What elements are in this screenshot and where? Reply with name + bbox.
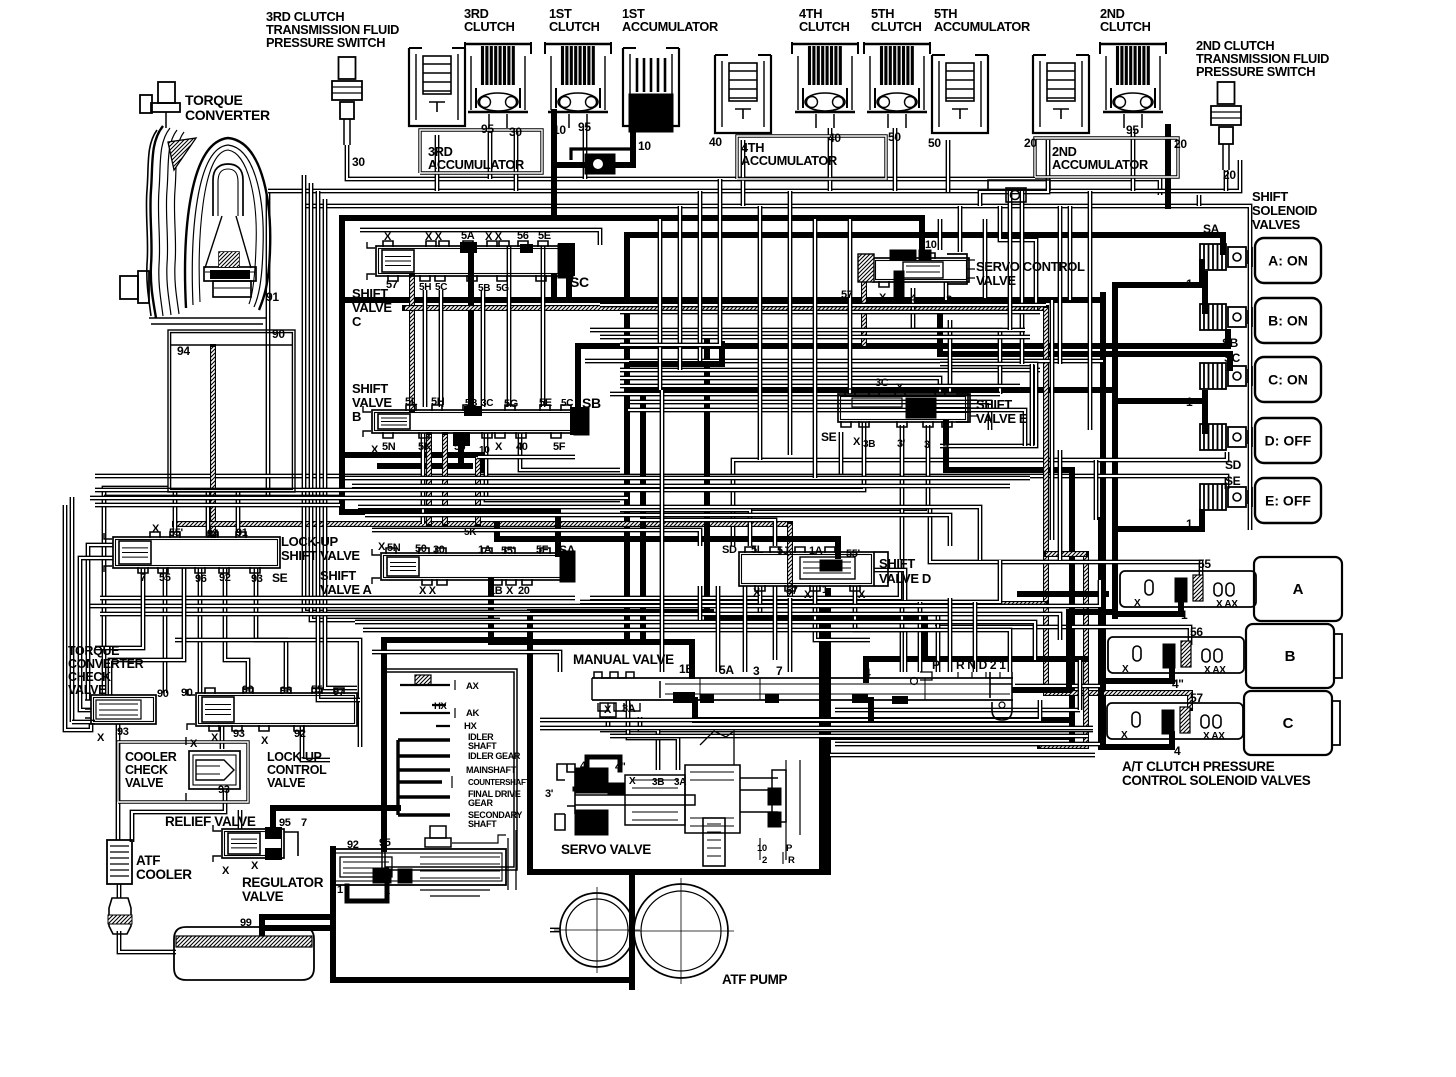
4th accumulator [715, 55, 771, 133]
lock-up control valve [187, 688, 357, 731]
wire thick under sv [868, 700, 874, 720]
wire lowband6 [372, 652, 560, 672]
svg-text:X: X [1134, 598, 1141, 609]
pressure control solenoid A box [1254, 557, 1342, 621]
svg-text:1B: 1B [489, 585, 503, 597]
wire midband8 [628, 410, 1025, 446]
svg-text:5E: 5E [538, 230, 551, 242]
svg-text:3B: 3B [863, 439, 875, 450]
wire pcsC 4 [1101, 734, 1172, 747]
cooler check valve [186, 737, 240, 801]
svg-text:CLUTCH: CLUTCH [871, 19, 922, 34]
solenoid valve B box [1255, 298, 1321, 343]
svg-text:X: X [896, 382, 904, 394]
wire pcsA 1 [1115, 601, 1181, 614]
wire right vertical 1101 [1098, 520, 1104, 747]
wire strainer link [117, 884, 122, 898]
svg-text:10: 10 [638, 139, 651, 153]
wire 5th clutch drop [893, 128, 898, 191]
1st accumulator [623, 48, 679, 132]
svg-text:TORQUE: TORQUE [68, 644, 119, 658]
lock-up shift valve [104, 532, 280, 573]
wire lockup outs 4 [256, 568, 286, 693]
svg-text:VALVE: VALVE [976, 273, 1016, 288]
svg-text:57: 57 [1190, 691, 1203, 705]
svg-text:1: 1 [822, 584, 828, 596]
svg-text:50: 50 [888, 130, 901, 144]
svg-text:P: P [786, 843, 793, 854]
wire SA from A [342, 455, 558, 554]
wire left v5 [70, 497, 75, 722]
solenoid valve D box [1255, 418, 1321, 463]
svg-text:3C: 3C [875, 377, 889, 389]
wire tccv down [116, 724, 121, 840]
wire relief feed [238, 810, 243, 829]
wire mid h2 [620, 368, 1040, 373]
torque converter [120, 82, 270, 324]
wire 3rd accum drop [435, 135, 440, 191]
svg-text:B: B [1285, 648, 1296, 665]
wire rb 594 [1020, 591, 1106, 597]
wire mvv3 [743, 586, 748, 672]
svg-text:1: 1 [1186, 395, 1193, 409]
pressure control solenoid A [1120, 571, 1256, 607]
svg-text:3C: 3C [481, 398, 493, 409]
wire mv right hook [1015, 684, 1100, 689]
svg-text:20: 20 [1174, 137, 1187, 151]
svg-text:SE: SE [821, 430, 837, 444]
svg-text:X AX: X AX [1216, 599, 1238, 610]
svg-text:5F: 5F [553, 441, 566, 453]
svg-text:X: X [1122, 664, 1129, 675]
svg-text:1: 1 [384, 885, 390, 897]
svg-text:X: X [506, 585, 514, 597]
wire midband7 [630, 402, 990, 430]
svg-text:R: R [788, 855, 795, 866]
wire bus SC [940, 300, 1230, 368]
svg-text:93: 93 [233, 728, 245, 740]
hatch bus 524 [175, 521, 790, 527]
wire rb v3 [1078, 660, 1083, 710]
svg-text:55: 55 [311, 684, 323, 696]
wire reg 95 vert [381, 640, 387, 849]
2nd clutch pressure switch [1211, 82, 1241, 170]
svg-text:1: 1 [1186, 517, 1193, 531]
svg-text:SHIFT: SHIFT [1252, 189, 1288, 204]
wire sol cyl link AB [1202, 274, 1208, 311]
svg-text:93: 93 [117, 726, 129, 738]
svg-text:1: 1 [1186, 277, 1193, 291]
svg-text:X: X [222, 865, 230, 877]
wire nest v3 [318, 191, 360, 700]
svg-text:PRESSURE SWITCH: PRESSURE SWITCH [1196, 64, 1315, 79]
svg-text:VALVE D: VALVE D [879, 571, 931, 586]
svg-text:5B: 5B [478, 283, 490, 294]
atf strainer [108, 898, 132, 934]
wire SCV 3 down [944, 282, 949, 300]
svg-text:SE: SE [272, 571, 288, 585]
wire x950 pair [948, 320, 953, 394]
box cooler check valve [118, 742, 248, 802]
wire midv3 [698, 191, 703, 361]
wire rv1 [1030, 364, 1035, 446]
servo valve [555, 731, 800, 866]
wire sv 3B [640, 717, 658, 770]
wire lowband5 [363, 630, 1010, 672]
wire tank to lockup 55 [173, 492, 178, 537]
svg-text:1: 1 [822, 664, 829, 678]
wire valveE 3 line [746, 425, 928, 512]
svg-text:AX: AX [466, 681, 480, 692]
svg-text:40: 40 [709, 135, 722, 149]
svg-text:ACCUMULATOR: ACCUMULATOR [1052, 157, 1148, 172]
svg-text:SC: SC [570, 274, 589, 290]
relief valve blobs [265, 827, 282, 839]
svg-text:CONVERTER: CONVERTER [68, 657, 144, 671]
svg-text:5J: 5J [454, 441, 466, 453]
wire bus 617 [707, 342, 925, 659]
wire mvv1 [698, 586, 703, 620]
check valve symbol 2 [988, 180, 1050, 202]
svg-text:PRESSURE SWITCH: PRESSURE SWITCH [266, 35, 385, 50]
wire reg thick left [262, 849, 333, 936]
manual valve black 2 [700, 694, 714, 703]
wire lu left 1 [88, 545, 113, 700]
svg-text:5E: 5E [539, 397, 552, 409]
wire reg bottom [333, 872, 632, 980]
manual valve black 1 [673, 692, 695, 703]
wire valveE feed2 [900, 425, 905, 672]
svg-text:X: X [384, 231, 392, 243]
wire sol 1 feed CD [1115, 398, 1202, 404]
wire strainer to pan [119, 931, 176, 952]
svg-text:CHECK: CHECK [68, 670, 111, 684]
check valve symbol 1 [571, 149, 633, 174]
svg-text:55': 55' [501, 545, 516, 557]
svg-text:10: 10 [553, 123, 566, 137]
wire bus loop C [342, 218, 922, 455]
wire 4th clutch drop [828, 128, 833, 191]
wire manual 4 feed [866, 659, 1086, 680]
wire midv10 [1008, 191, 1013, 330]
wire bc v4 [507, 246, 512, 407]
1st clutch [545, 42, 611, 128]
wire atf pump thick [629, 980, 635, 987]
3rd clutch pressure switch [332, 57, 362, 145]
pressure control solenoid C [1107, 703, 1243, 739]
shift valve A [372, 548, 575, 585]
wire lockup outs 1 [163, 568, 168, 693]
svg-text:VALVE: VALVE [125, 776, 163, 790]
wire lowband2 [90, 580, 1100, 606]
wire bus 300 [344, 297, 1103, 303]
svg-text:AK: AK [466, 708, 480, 719]
hatch mark box [415, 675, 431, 685]
svg-text:COOLER: COOLER [136, 867, 192, 882]
wire left h6 [72, 720, 95, 725]
wire 2nd clutch thick [1165, 127, 1171, 206]
wire tank to lockup 94 [206, 492, 211, 537]
svg-text:95: 95 [279, 817, 291, 829]
wire left loop [65, 505, 91, 730]
wire hatch457 ext [478, 455, 575, 460]
svg-text:5C: 5C [561, 398, 573, 409]
wire servo box [530, 610, 822, 872]
hatch left vertical [210, 347, 216, 535]
svg-text:LOCK-UP: LOCK-UP [267, 750, 322, 764]
svg-text:5C: 5C [435, 282, 447, 293]
wire mb3 [610, 734, 1088, 739]
svg-text:P: P [932, 658, 940, 672]
wire nest v4 [325, 199, 357, 688]
svg-text:50: 50 [928, 136, 941, 150]
svg-text:CHECK: CHECK [125, 763, 168, 777]
pressure control solenoid C box [1244, 691, 1332, 755]
wire rtop L1 [1000, 206, 1036, 310]
wire midv5 [758, 206, 763, 460]
svg-text:D: OFF: D: OFF [1265, 433, 1312, 449]
svg-text:3: 3 [946, 294, 952, 306]
wire psw2 link [1197, 195, 1202, 206]
wire relief thick [273, 808, 398, 827]
wire 1st accum thick [556, 134, 633, 165]
svg-text:X: X [604, 704, 612, 716]
svg-text:10: 10 [925, 239, 937, 251]
svg-text:92: 92 [294, 728, 306, 740]
svg-text:56: 56 [1190, 625, 1203, 639]
tccv details [85, 700, 141, 719]
svg-text:20: 20 [1223, 168, 1236, 182]
hatch bus 315 [405, 305, 1046, 311]
wire valveA under [590, 560, 900, 598]
wire 5B link [468, 250, 474, 410]
svg-text:SHAFT: SHAFT [468, 741, 497, 751]
wire lu left 2 [80, 558, 113, 710]
wire midband2 [620, 310, 1040, 315]
wire sol cyl link CD [1202, 393, 1208, 431]
svg-text:C: ON: C: ON [1268, 372, 1308, 388]
wire 4th accum drop [741, 140, 746, 206]
svg-text:94: 94 [207, 528, 220, 540]
svg-text:95: 95 [578, 120, 591, 134]
svg-text:X: X [251, 860, 259, 872]
svg-text:GEAR: GEAR [468, 798, 493, 808]
3rd accumulator [409, 48, 465, 126]
svg-text:10: 10 [757, 843, 767, 854]
wire lowband1 [100, 596, 575, 601]
svg-text:COOLER: COOLER [125, 750, 177, 764]
svg-text:4'': 4'' [615, 761, 626, 773]
svg-text:CONVERTER: CONVERTER [185, 107, 270, 123]
wire bc v3 [481, 290, 486, 407]
shift valve E details [852, 394, 977, 422]
svg-text:IDLER GEAR: IDLER GEAR [468, 751, 521, 761]
wire valveE 4 line [946, 422, 1072, 746]
wire tank bottom left [104, 488, 168, 695]
svg-text:40: 40 [516, 441, 528, 453]
wire mvv2 [716, 586, 721, 672]
wire valveE black right [935, 407, 968, 413]
wire pcs56 line [935, 627, 1190, 645]
servo control valve details [858, 250, 975, 284]
svg-text:C: C [352, 314, 362, 329]
wire top bus 3 [302, 206, 1250, 530]
svg-text:5H: 5H [431, 396, 445, 408]
wire SCV 57 hatch [861, 280, 867, 346]
wire thick pan99 [262, 925, 333, 931]
svg-text:X: X [378, 541, 386, 553]
wire tank level line [170, 344, 293, 346]
svg-text:SA: SA [1203, 222, 1220, 236]
wire SCV 4 thick [894, 276, 905, 302]
wire bus loop C bottom [342, 455, 484, 470]
wire bus SA [627, 235, 1223, 642]
wire midv7 [813, 219, 818, 478]
svg-text:MAINSHAFT: MAINSHAFT [466, 765, 517, 775]
wire top bus 2b [268, 160, 1240, 191]
wire band1 [95, 488, 620, 493]
svg-text:X: X [629, 776, 636, 787]
wire midv9 [958, 206, 963, 252]
wire thick sv out [575, 787, 608, 792]
wire bus 720 [695, 700, 1072, 720]
svg-text:55': 55' [846, 548, 861, 560]
svg-text:55': 55' [169, 527, 184, 539]
svg-text:3A: 3A [622, 703, 636, 715]
wire pcsB 4pp [1104, 668, 1172, 681]
svg-text:SOLENOID: SOLENOID [1252, 203, 1317, 218]
svg-text:X X: X X [425, 231, 443, 243]
svg-text:ATF PUMP: ATF PUMP [722, 972, 788, 987]
svg-text:X AX: X AX [1204, 665, 1226, 676]
wire bus 737 [827, 705, 1071, 737]
shaft list box [382, 669, 517, 870]
svg-text:X: X [1121, 730, 1128, 741]
wire b down 3 [520, 433, 620, 470]
solenoid valve E [1200, 484, 1252, 510]
svg-text:ACCUMULATOR: ACCUMULATOR [741, 153, 837, 168]
wire 1st clutch drop b [583, 128, 588, 179]
wire b down 1 [421, 433, 426, 524]
hatch 5K link [426, 435, 432, 524]
svg-text:X X: X X [419, 585, 437, 597]
svg-text:1B: 1B [679, 662, 694, 676]
atf cooler [107, 840, 132, 884]
wire band3 [345, 476, 1030, 481]
svg-text:X: X [211, 732, 219, 744]
svg-text:MANUAL VALVE: MANUAL VALVE [573, 652, 674, 667]
svg-text:ACCUMULATOR: ACCUMULATOR [622, 19, 718, 34]
wire midv2 [678, 206, 683, 370]
svg-text:7: 7 [140, 572, 146, 584]
wire rtop L5 [983, 219, 988, 298]
svg-text:5L: 5L [751, 544, 764, 556]
svg-text:X: X [858, 589, 866, 601]
svg-text:4': 4' [580, 760, 589, 772]
svg-text:50: 50 [415, 543, 427, 555]
svg-text:COUNTERSHAFT: COUNTERSHAFT [468, 778, 530, 787]
wire right vertical 1103 [1100, 295, 1106, 747]
svg-text:95: 95 [481, 122, 494, 136]
svg-text:4: 4 [864, 666, 871, 680]
wire mid h3 [620, 378, 940, 394]
wire 5J down [380, 435, 461, 466]
wire band6 [365, 515, 950, 546]
svg-text:56: 56 [517, 230, 529, 242]
svg-text:VALVE E: VALVE E [976, 411, 1028, 426]
wire bus 539 [497, 524, 838, 556]
wire sol 1 feed E [1115, 512, 1202, 529]
solenoid valve C [1200, 363, 1252, 389]
svg-text:3': 3' [545, 788, 554, 800]
hatch 5J valveD [787, 524, 793, 604]
wire lu down 1 [95, 568, 143, 648]
5th clutch [864, 42, 930, 128]
hatch right vertical 1046 [1046, 308, 1190, 708]
svg-text:5N: 5N [382, 441, 396, 453]
wire reg 1 U [347, 886, 387, 901]
wire 2nd switch drop [1224, 170, 1229, 191]
svg-text:93: 93 [218, 784, 230, 796]
svg-text:94: 94 [177, 344, 190, 358]
wire valve C 4 line [551, 276, 557, 300]
solenoid valve A [1200, 244, 1252, 270]
wire lowband4 [355, 622, 1035, 660]
wire vd down4 [874, 570, 905, 600]
svg-text:SHIFT: SHIFT [352, 286, 388, 301]
wire x643 feed [640, 390, 646, 642]
svg-text:VALVES: VALVES [1252, 217, 1301, 232]
wire rv3 [1058, 450, 1063, 560]
svg-text:4: 4 [1174, 744, 1181, 758]
svg-text:R N D 2 1: R N D 2 1 [956, 658, 1006, 672]
svg-text:2: 2 [762, 855, 767, 866]
wire rtop L3 [1068, 206, 1073, 300]
box 4th accumulator label [737, 136, 886, 179]
svg-text:B: B [352, 409, 361, 424]
wire midv8 [848, 219, 853, 394]
torque converter reservoir [168, 330, 295, 492]
svg-text:92: 92 [347, 839, 359, 851]
svg-text:REGULATOR: REGULATOR [242, 875, 324, 890]
shift valve C [367, 241, 573, 281]
shaft feeder lines [398, 680, 455, 815]
wire rtop L6 [938, 219, 943, 250]
svg-text:91: 91 [236, 527, 248, 539]
svg-text:SB: SB [582, 395, 601, 411]
atf pump gear 1 [554, 887, 640, 973]
svg-text:SC: SC [1224, 351, 1241, 365]
box lockup control region [175, 640, 360, 747]
svg-text:55: 55 [159, 572, 171, 584]
wire rv4 [1088, 343, 1093, 430]
svg-text:VALVE: VALVE [352, 395, 392, 410]
svg-text:10: 10 [479, 445, 490, 456]
wire lu down 2 [110, 568, 184, 695]
svg-text:X: X [853, 436, 861, 448]
svg-text:B: ON: B: ON [1268, 313, 1308, 329]
svg-text:3B: 3B [652, 777, 664, 788]
svg-text:1A: 1A [809, 545, 823, 557]
svg-text:1: 1 [337, 884, 343, 896]
wire lockup outs 3 [225, 568, 248, 693]
wire midband1 [600, 303, 1046, 308]
svg-text:5J: 5J [777, 545, 789, 557]
svg-text:93: 93 [251, 573, 263, 585]
wire 3rd clutch drop a [488, 128, 493, 179]
atf pump gear 2 [628, 878, 734, 984]
svg-text:30: 30 [352, 155, 365, 169]
